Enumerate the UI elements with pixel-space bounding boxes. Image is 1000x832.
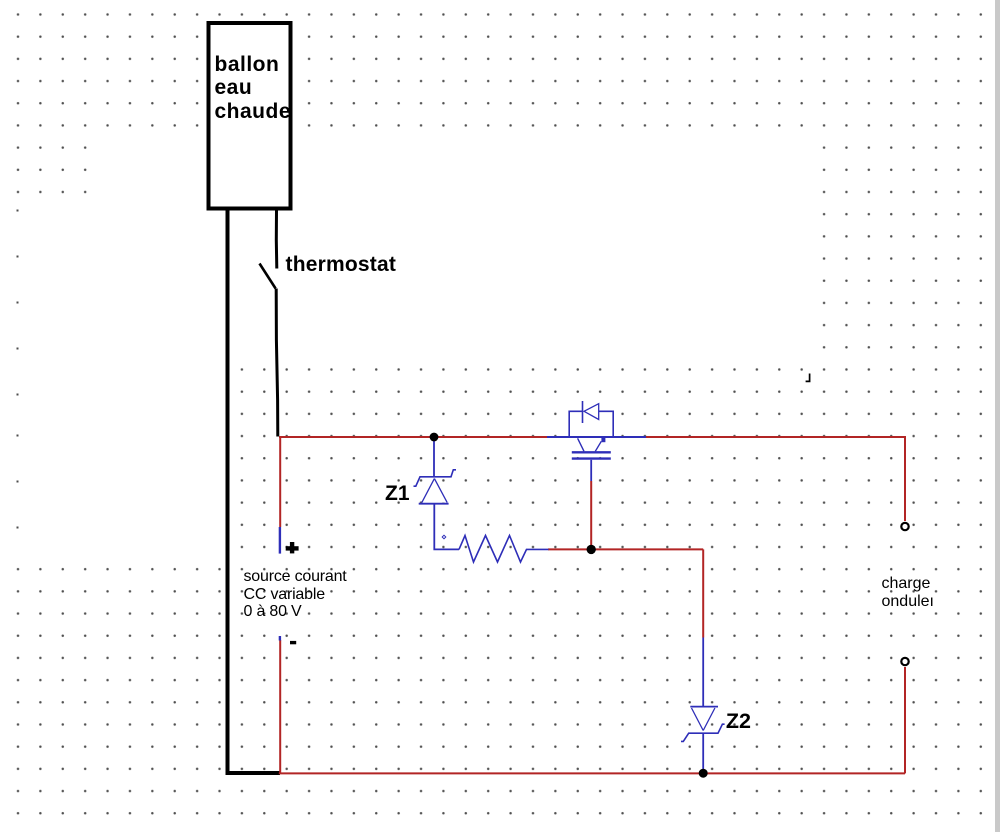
wire source minus lead red <box>279 640 281 773</box>
wire right leg lower black <box>276 289 278 437</box>
transistor Q1 arrow hatch <box>595 441 601 451</box>
stray mark <box>806 374 810 382</box>
white erased patch center <box>95 128 820 360</box>
zener Z2 triangle <box>692 708 715 731</box>
label thermostat <box>286 254 397 275</box>
transistor Q1 arrow head <box>601 437 605 443</box>
label plus <box>286 542 299 553</box>
label minus <box>290 641 296 644</box>
transistor Q1 main wire blue <box>547 436 646 438</box>
transistor Q1 gate bar 1 <box>572 451 611 453</box>
resistor R1 zigzag <box>459 536 549 563</box>
transistor Q1 diode cathode bar <box>582 401 584 423</box>
wire charge lower lead red <box>904 667 906 773</box>
wire Z1 top lead blue <box>433 438 435 477</box>
label Z1 <box>385 483 410 504</box>
thermostat switch arm <box>260 264 276 289</box>
zener Z1 triangle <box>422 479 447 503</box>
wire transistor gate leg blue <box>590 460 592 481</box>
wire bottom black segment <box>226 771 281 775</box>
transistor Q1 body diode loop <box>569 411 613 437</box>
label charge onduleur <box>882 575 935 611</box>
wire right leg upper black <box>275 211 279 269</box>
label Z2 <box>726 711 751 732</box>
wire gate node red horizontal <box>548 548 703 550</box>
white erased patch lower-left <box>8 360 232 565</box>
zener Z2 cathode bar with wings <box>681 724 725 741</box>
junction node C <box>699 769 708 778</box>
terminal charge lower <box>901 658 908 665</box>
junction node B <box>587 545 596 554</box>
junction node A <box>430 433 439 442</box>
wire bottom red rail <box>279 772 905 774</box>
wire Z2 bottom lead blue <box>702 734 704 770</box>
pin marker diamond <box>442 535 446 539</box>
zener Z1 anode bar <box>419 503 449 505</box>
wire Z2 top lead blue <box>702 638 704 707</box>
label source courant <box>244 568 347 621</box>
label ballon eau chaude <box>215 53 292 124</box>
right gray edge strip <box>995 0 1000 832</box>
source minus terminal tick blue <box>279 636 281 641</box>
ballon eau chaude box <box>209 23 291 209</box>
zener Z2 anode bar <box>690 706 718 708</box>
transistor Q1 left hatch <box>578 438 584 451</box>
zener Z1 cathode bar with wings <box>414 470 457 486</box>
wire Z2 upper lead red <box>702 549 704 637</box>
transistor Q1 body diode loop white backfill <box>570 412 612 436</box>
terminal charge upper <box>901 523 908 530</box>
wire top red rail <box>279 437 905 521</box>
white erased patch left <box>8 198 95 360</box>
wire transistor gate leg red <box>590 481 592 549</box>
transistor Q1 diode triangle <box>584 404 599 420</box>
wire Z1 bottom lead blue <box>434 504 459 549</box>
wire left leg black <box>226 211 230 774</box>
wire source plus lead red <box>279 437 281 527</box>
source plus terminal tick blue <box>279 527 281 554</box>
transistor Q1 gate bar 2 <box>572 457 611 459</box>
